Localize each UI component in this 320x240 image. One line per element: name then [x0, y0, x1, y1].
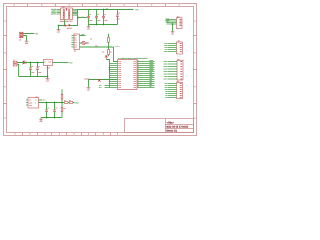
svg-text:GND: GND [164, 51, 167, 53]
title block [125, 119, 194, 133]
IC1 pin names right column [133, 61, 136, 89]
svg-text:X1: X1 [13, 60, 15, 62]
svg-text:AD7: AD7 [133, 73, 136, 75]
resistor R4 vertical [102, 47, 112, 56]
left pin bus [106, 59, 109, 88]
junctions [30, 62, 32, 64]
svg-text:D13: D13 [165, 83, 168, 85]
junction [77, 17, 79, 19]
connector JP3 [177, 60, 183, 80]
frame top ticks [28, 4, 166, 7]
frame outer border [4, 4, 197, 136]
X2 right pin stubs [73, 10, 78, 16]
IC1 box (ATMEGA) [118, 60, 138, 90]
wire row1 [80, 35, 86, 37]
svg-text:100n: 100n [89, 20, 92, 22]
svg-text:PB6: PB6 [118, 77, 121, 79]
svg-text:AREF: AREF [163, 79, 167, 81]
svg-text:GND: GND [164, 76, 167, 78]
svg-text:AREF: AREF [150, 76, 154, 78]
JP1 wires [168, 44, 177, 52]
svg-text:IN: IN [44, 61, 45, 63]
svg-text:D13: D13 [150, 78, 153, 80]
IC1 gnd long wire [89, 79, 118, 81]
svg-text:D10: D10 [165, 89, 168, 91]
frame right ticks [194, 36, 197, 104]
svg-text:PINHD: PINHD [175, 100, 179, 102]
connector JP1 [177, 42, 183, 54]
LED wire [80, 42, 89, 44]
svg-text:<Title>: <Title> [167, 121, 175, 124]
svg-text:PD3: PD3 [118, 69, 121, 71]
svg-text:ADC5: ADC5 [150, 60, 154, 62]
svg-text:D11: D11 [150, 82, 153, 84]
svg-text:100n: 100n [104, 20, 107, 22]
capacitor C3 [102, 10, 107, 25]
rail2 [41, 117, 62, 119]
SJ1 wires [23, 34, 34, 41]
svg-text:D7: D7 [165, 95, 167, 97]
svg-text:PB2: PB2 [133, 85, 136, 87]
svg-text:ARF: ARF [133, 77, 136, 79]
svg-text:PB5: PB5 [133, 79, 136, 81]
svg-text:ADC4: ADC4 [163, 64, 167, 66]
IC1 right wires [137, 62, 155, 88]
svg-text:D10: D10 [150, 84, 153, 86]
svg-text:XT2: XT2 [99, 87, 102, 89]
svg-text:100n: 100n [117, 19, 120, 21]
ground [87, 87, 91, 90]
svg-text:VCC: VCC [118, 73, 121, 75]
svg-text:+5V: +5V [105, 55, 108, 57]
cap C7 [36, 63, 41, 77]
rail2 gnd stem [40, 118, 42, 120]
svg-text:GND: GND [29, 102, 32, 104]
resistor R2 vertical [108, 34, 110, 47]
svg-text:D8: D8 [165, 93, 167, 95]
svg-text:D12: D12 [150, 80, 153, 82]
IC1 left pin stubs [110, 64, 118, 84]
JP4 wires [168, 84, 177, 98]
cap C6 [29, 63, 34, 77]
IC3 left stubs [72, 36, 75, 48]
svg-text:PD0: PD0 [118, 63, 121, 65]
series resistor R7 [64, 100, 68, 103]
svg-text:PC2: PC2 [133, 67, 136, 69]
IC3 (interface) [74, 34, 80, 50]
svg-text:PD5: PD5 [118, 81, 121, 83]
svg-text:AD6: AD6 [133, 75, 136, 77]
svg-text:D11: D11 [165, 87, 168, 89]
svg-text:R4: R4 [110, 51, 112, 53]
wire to ground [58, 26, 60, 30]
rail1 [39, 102, 63, 104]
junctions rail2 [46, 117, 48, 119]
+5V top rail [78, 9, 134, 11]
svg-text:D6: D6 [165, 97, 167, 99]
JP2 gnd wire [172, 24, 174, 31]
resistor R6 below rail [61, 103, 66, 118]
svg-text:PD6: PD6 [118, 83, 121, 85]
svg-text:100n: 100n [97, 20, 100, 22]
svg-text:CTS: CTS [74, 44, 77, 46]
ground [39, 118, 43, 121]
connector JP2 [177, 18, 183, 29]
regulator gnd stub [47, 66, 49, 79]
Q1 out wire [39, 99, 43, 101]
svg-text:PD1: PD1 [118, 65, 121, 67]
switch S1 [65, 24, 70, 26]
svg-text:R3: R3 [90, 39, 92, 41]
svg-text:PC1: PC1 [133, 69, 136, 71]
svg-text:AD6: AD6 [150, 74, 153, 76]
regulator IC4 [44, 60, 53, 66]
gnd rail [19, 76, 48, 78]
power jack X1 [13, 61, 17, 66]
svg-text:10k: 10k [102, 52, 105, 54]
resistor R5 above rail [61, 89, 63, 102]
bottom gnd rail [89, 24, 118, 26]
svg-text:VCC: VCC [29, 105, 32, 107]
IC1 pin names left column [118, 61, 121, 89]
svg-text:PB0: PB0 [118, 87, 121, 89]
svg-text:DTR: DTR [164, 43, 167, 45]
reset net vertical [114, 47, 118, 62]
svg-text:GND: GND [46, 80, 49, 82]
svg-text:GND: GND [74, 47, 77, 49]
svg-text:RTS: RTS [74, 42, 77, 44]
svg-text:PD7: PD7 [118, 85, 121, 87]
X2 left wires [57, 10, 61, 15]
svg-text:PC4: PC4 [133, 63, 136, 65]
IC1 right pin numbers [137, 60, 139, 88]
svg-text:ADC1: ADC1 [150, 68, 154, 70]
svg-text:GND: GND [171, 33, 174, 35]
junction [58, 25, 60, 27]
series resistor R8 [62, 100, 74, 103]
svg-text:GND: GND [25, 43, 28, 45]
svg-text:R7: R7 [64, 100, 66, 102]
connector JP4 [177, 83, 183, 99]
svg-text:C7: C7 [38, 66, 40, 68]
crystal mark on wire [98, 79, 101, 82]
IC1 right wire labels [150, 60, 154, 88]
wire bus right of X2 [77, 10, 79, 18]
svg-text:ADC1: ADC1 [163, 71, 167, 73]
svg-text:PC5: PC5 [133, 61, 136, 63]
svg-text:C1: C1 [89, 14, 91, 16]
svg-text:OUT: OUT [48, 61, 51, 63]
oscillator Q1 box [28, 98, 39, 109]
X2 pin labels [51, 8, 57, 16]
junction [108, 46, 110, 48]
LED1 [82, 41, 85, 44]
ground [46, 78, 50, 81]
JP4 labels [165, 83, 168, 99]
svg-text:C3: C3 [104, 14, 106, 16]
ground [171, 31, 175, 34]
svg-text:GND: GND [118, 75, 121, 77]
JP3 labels [163, 61, 167, 81]
svg-text:EN: EN [29, 100, 31, 102]
connector X2 (USB) [61, 8, 73, 20]
IC1 longer left wires [105, 86, 118, 88]
capacitor C2 [95, 10, 100, 25]
svg-text:ADC2: ADC2 [163, 69, 167, 71]
diode D1 [23, 61, 26, 64]
svg-text:PC6: PC6 [118, 61, 121, 63]
svg-text:AD7: AD7 [150, 72, 153, 74]
output wire [53, 62, 69, 64]
long reset wire [80, 46, 114, 48]
svg-text:GND: GND [87, 90, 90, 92]
svg-text:D9: D9 [150, 86, 152, 88]
JP1 labels [164, 43, 167, 53]
svg-text:TXD: TXD [164, 47, 167, 49]
JP2 labels [165, 17, 170, 23]
cap C9 [53, 103, 57, 118]
svg-text:MINI-USB-SHD: MINI-USB-SHD [60, 20, 73, 23]
svg-text:C9: C9 [55, 108, 57, 110]
capacitor C4 [116, 10, 120, 25]
svg-text:PC0: PC0 [133, 71, 136, 73]
svg-text:C6: C6 [31, 66, 33, 68]
frame margin letters [4, 4, 195, 134]
svg-text:ADC0: ADC0 [163, 74, 167, 76]
svg-text:PD4: PD4 [118, 71, 121, 73]
svg-text:ADC3: ADC3 [150, 64, 154, 66]
svg-text:ADC5: ADC5 [163, 61, 167, 63]
svg-text:C4: C4 [118, 13, 120, 15]
svg-text:R8: R8 [69, 100, 71, 102]
svg-text:TXO: TXO [74, 40, 77, 42]
svg-text:ADC2: ADC2 [150, 66, 154, 68]
capacitor C1 [87, 10, 92, 25]
svg-text:PC3: PC3 [133, 65, 136, 67]
junctions rail1 [46, 102, 48, 104]
VCC arrow symbol [105, 56, 108, 60]
input wire [17, 62, 44, 64]
svg-text:PD2: PD2 [118, 67, 121, 69]
svg-text:100u: 100u [31, 72, 34, 74]
ground [57, 29, 61, 32]
wire X2 bottom pin down [59, 18, 78, 26]
svg-text:D9: D9 [165, 91, 167, 93]
svg-text:C2: C2 [97, 14, 99, 16]
svg-text:VCC: VCC [74, 35, 77, 37]
JP2 wires [167, 20, 177, 25]
svg-text:2011-04-15 17:04:52: 2011-04-15 17:04:52 [166, 126, 189, 129]
svg-text:Sheet: 1/1: Sheet: 1/1 [166, 130, 178, 133]
svg-text:GND: GND [57, 32, 60, 34]
svg-text:ADC3: ADC3 [163, 66, 167, 68]
svg-text:ADC4: ADC4 [150, 62, 154, 64]
jack gnd wire [17, 64, 19, 76]
Q1 inner text [29, 100, 37, 107]
svg-text:D1: D1 [24, 60, 26, 62]
gnd stem [88, 80, 90, 88]
IC3 pin names [74, 35, 77, 49]
Q1 left stubs [26, 100, 28, 105]
cap C8 [45, 103, 49, 118]
svg-text:ADC0: ADC0 [150, 70, 154, 72]
ground [87, 26, 91, 29]
svg-text:1X06: 1X06 [177, 55, 180, 57]
frame bottom ticks [23, 133, 111, 136]
frame inner border [7, 7, 194, 133]
rail ground stem [88, 25, 90, 27]
wire stub toward rail [78, 17, 88, 19]
svg-text:RXD: RXD [164, 45, 167, 47]
svg-text:PB4: PB4 [133, 81, 136, 83]
svg-text:D12: D12 [165, 85, 168, 87]
ground [25, 40, 29, 43]
svg-text:+5V: +5V [165, 49, 168, 51]
frame left ticks [4, 36, 7, 104]
svg-text:GND: GND [39, 121, 42, 123]
JP3 wires [168, 62, 178, 80]
svg-text:XT1: XT1 [99, 85, 102, 87]
jumper SJ1 [20, 32, 24, 38]
svg-text:GND: GND [87, 28, 90, 30]
svg-text:PB1: PB1 [133, 87, 136, 89]
svg-text:100u: 100u [38, 72, 41, 74]
svg-text:C8: C8 [47, 108, 49, 110]
svg-text:PB7: PB7 [118, 79, 121, 81]
junctions on rails [103, 9, 105, 11]
bus junctions [109, 67, 111, 69]
svg-text:PB3: PB3 [133, 83, 136, 85]
